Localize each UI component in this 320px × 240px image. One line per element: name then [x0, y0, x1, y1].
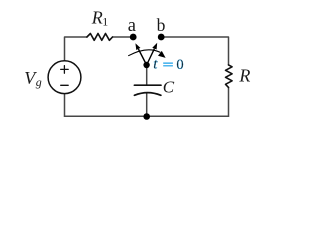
node a terminal dot [130, 34, 137, 41]
switch pivot dot [143, 62, 149, 68]
capacitor C top plate [134, 84, 161, 86]
junction dot on bottom rail [143, 113, 150, 120]
svg-text:1: 1 [102, 15, 108, 29]
voltage source Vg circle [48, 61, 81, 94]
resistor R zigzag [226, 65, 233, 88]
resistor R1 zigzag [87, 34, 113, 41]
svg-text:0: 0 [176, 57, 183, 73]
capacitor C bottom curved plate [134, 93, 161, 96]
svg-text:t: t [153, 57, 158, 73]
plus sign [61, 66, 68, 74]
wire source bottom to bottom-left corner [64, 94, 66, 116]
svg-text:g: g [36, 75, 42, 89]
svg-text:R: R [91, 7, 103, 27]
wire left branch: top-left corner down to source top [65, 37, 87, 61]
svg-text:b: b [157, 15, 166, 35]
switch blade arrow toward b [147, 43, 158, 65]
wire switch pivot down to capacitor [146, 65, 148, 85]
wire bottom rail [65, 115, 229, 117]
svg-text:R: R [238, 66, 250, 86]
svg-text:C: C [163, 78, 175, 97]
wire right side below R to bottom-right corner [228, 87, 230, 116]
wire from R1 right end to node a [113, 36, 132, 38]
svg-text:a: a [128, 16, 136, 36]
switch motion arc with arrowhead [128, 50, 165, 58]
switch blade arrow toward a [135, 43, 146, 65]
wire capacitor bottom to bottom rail [146, 93, 148, 116]
minus sign [61, 84, 68, 86]
wire node b to top-right corner and down to resistor R [164, 37, 229, 65]
node b terminal dot [158, 34, 165, 41]
